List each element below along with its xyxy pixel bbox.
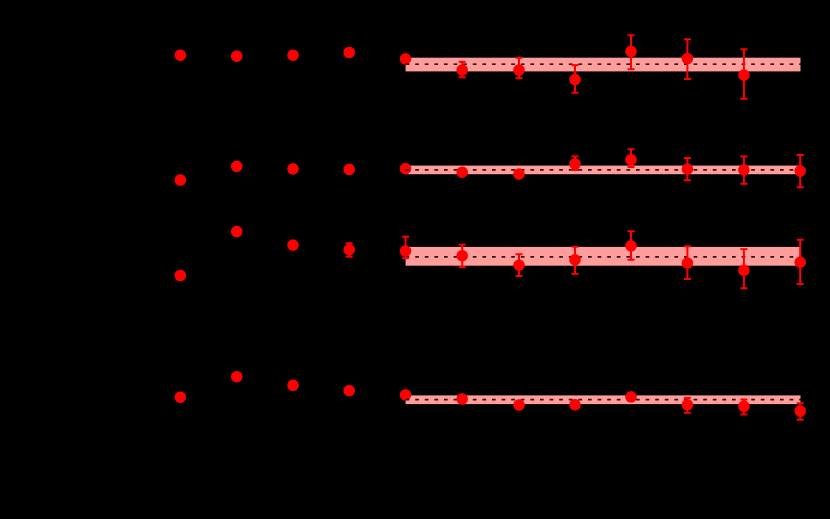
row2 series point 6 error bar bbox=[684, 158, 691, 180]
row2 series point 5 bbox=[625, 154, 637, 166]
row3 series point 1 error bar bbox=[402, 237, 409, 258]
row1 series point 3 error bar bbox=[516, 58, 523, 78]
row3 left point 4 error bar bbox=[346, 243, 353, 256]
row3 series point 2 error bar bbox=[459, 245, 466, 268]
row3 series point 1 (under mean line) bbox=[400, 245, 412, 257]
row4 mean band bbox=[406, 395, 801, 404]
row3 left point 4 bbox=[343, 244, 355, 256]
row4 left point 3 bbox=[287, 380, 299, 392]
row2 series point 6 bbox=[682, 163, 694, 175]
row2 series point 7 error bar bbox=[740, 156, 747, 183]
row3 mean band bbox=[406, 247, 801, 266]
row4 series point 1 (under mean line) bbox=[400, 389, 412, 401]
row1 left point 3 bbox=[287, 49, 299, 61]
row1 left point 2 bbox=[231, 50, 243, 62]
row4 series point 6 bbox=[682, 399, 694, 411]
row4 series point 7 bbox=[738, 401, 750, 413]
row1 series point 6 bbox=[682, 53, 694, 65]
row1 series point 6 error bar bbox=[684, 39, 691, 79]
row3 series point 7 error bar bbox=[740, 249, 747, 288]
row3 series point 5 bbox=[625, 240, 637, 252]
row1 series point 5 error bar bbox=[628, 35, 635, 69]
row2 series point 5 error bar bbox=[628, 149, 635, 167]
row3 left point 3 bbox=[287, 239, 299, 251]
row2 series point 1 (under mean line) bbox=[400, 163, 412, 175]
row4 mean dashed line bbox=[406, 399, 801, 401]
row4 series point 8 error bar bbox=[797, 403, 804, 420]
row3 series point 3 error bar bbox=[516, 254, 523, 276]
row1 series point 1 (under mean line) bbox=[400, 53, 412, 65]
row4 left point 2 bbox=[231, 371, 243, 383]
row1 series point 7 bbox=[738, 69, 750, 81]
row3 series point 8 bbox=[794, 257, 806, 269]
row1 series point 3 bbox=[513, 64, 525, 76]
row2 left point 2 bbox=[231, 161, 243, 173]
row2 mean band bbox=[406, 166, 801, 175]
row2 left point 1 bbox=[175, 174, 187, 186]
row1 left point 1 bbox=[175, 49, 187, 61]
row4 series point 4 bbox=[569, 399, 581, 411]
row3 left point 1 bbox=[175, 270, 187, 282]
row2 series point 8 bbox=[794, 165, 806, 177]
row4 series point 8 bbox=[794, 405, 806, 417]
row4 series point 6 error bar bbox=[684, 398, 691, 413]
row1 mean dashed line bbox=[406, 63, 801, 65]
row3 series point 2 bbox=[456, 250, 468, 262]
row2 series point 4 error bar bbox=[572, 156, 579, 170]
row3 series point 6 bbox=[682, 257, 694, 269]
row3 series point 4 bbox=[569, 254, 581, 266]
row1 series point 2 bbox=[456, 64, 468, 76]
row3 series point 3 bbox=[513, 259, 525, 271]
row1 series point 5 bbox=[625, 46, 637, 58]
row4 series point 2 bbox=[456, 393, 468, 405]
row4 series point 3 bbox=[513, 399, 525, 411]
row1 series point 2 error bar bbox=[459, 62, 466, 77]
row2 series point 2 bbox=[456, 166, 468, 178]
row1 series point 7 error bar bbox=[740, 49, 747, 99]
row4 series point 7 error bar bbox=[740, 400, 747, 415]
row2 series point 3 bbox=[513, 168, 525, 180]
row1 left point 4 bbox=[343, 47, 355, 59]
row2 left point 3 bbox=[287, 163, 299, 175]
row3 left point 2 bbox=[231, 226, 243, 238]
row4 series point 5 bbox=[625, 391, 637, 403]
row1 mean band bbox=[406, 58, 801, 72]
row2 left point 4 bbox=[343, 164, 355, 176]
row4 left point 4 bbox=[343, 385, 355, 397]
row1 series point 4 error bar bbox=[572, 65, 579, 93]
row1 series point 4 bbox=[569, 74, 581, 86]
row2 series point 8 error bar bbox=[797, 155, 804, 187]
row3 series point 5 error bar bbox=[628, 231, 635, 259]
row2 mean dashed line bbox=[406, 169, 801, 171]
row3 series point 7 bbox=[738, 265, 750, 277]
row4 left point 1 bbox=[175, 391, 187, 403]
row3 series point 8 error bar bbox=[797, 240, 804, 284]
row3 series point 4 error bar bbox=[572, 247, 579, 274]
row3 series point 6 error bar bbox=[684, 246, 691, 279]
row2 series point 7 bbox=[738, 164, 750, 176]
row2 series point 4 bbox=[569, 158, 581, 170]
row3 mean dashed line bbox=[406, 256, 801, 258]
